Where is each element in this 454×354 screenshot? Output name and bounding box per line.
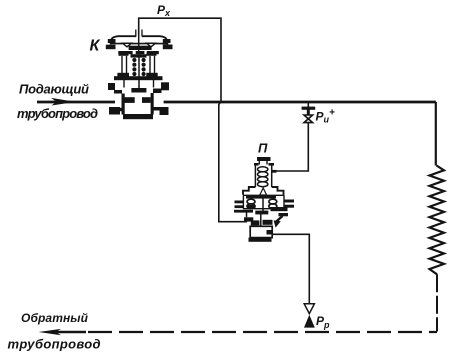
svg-text:трубопровод: трубопровод [8,337,101,352]
svg-text:Обратный: Обратный [21,311,89,325]
svg-text:Px: Px [157,3,171,18]
svg-text:К: К [90,38,101,55]
svg-text:Pp: Pp [316,314,330,330]
svg-text:П: П [258,141,268,156]
svg-text:Pи+: Pи+ [316,108,336,125]
svg-text:трубопровод: трубопровод [17,106,98,121]
svg-text:Подающий: Подающий [19,82,89,97]
